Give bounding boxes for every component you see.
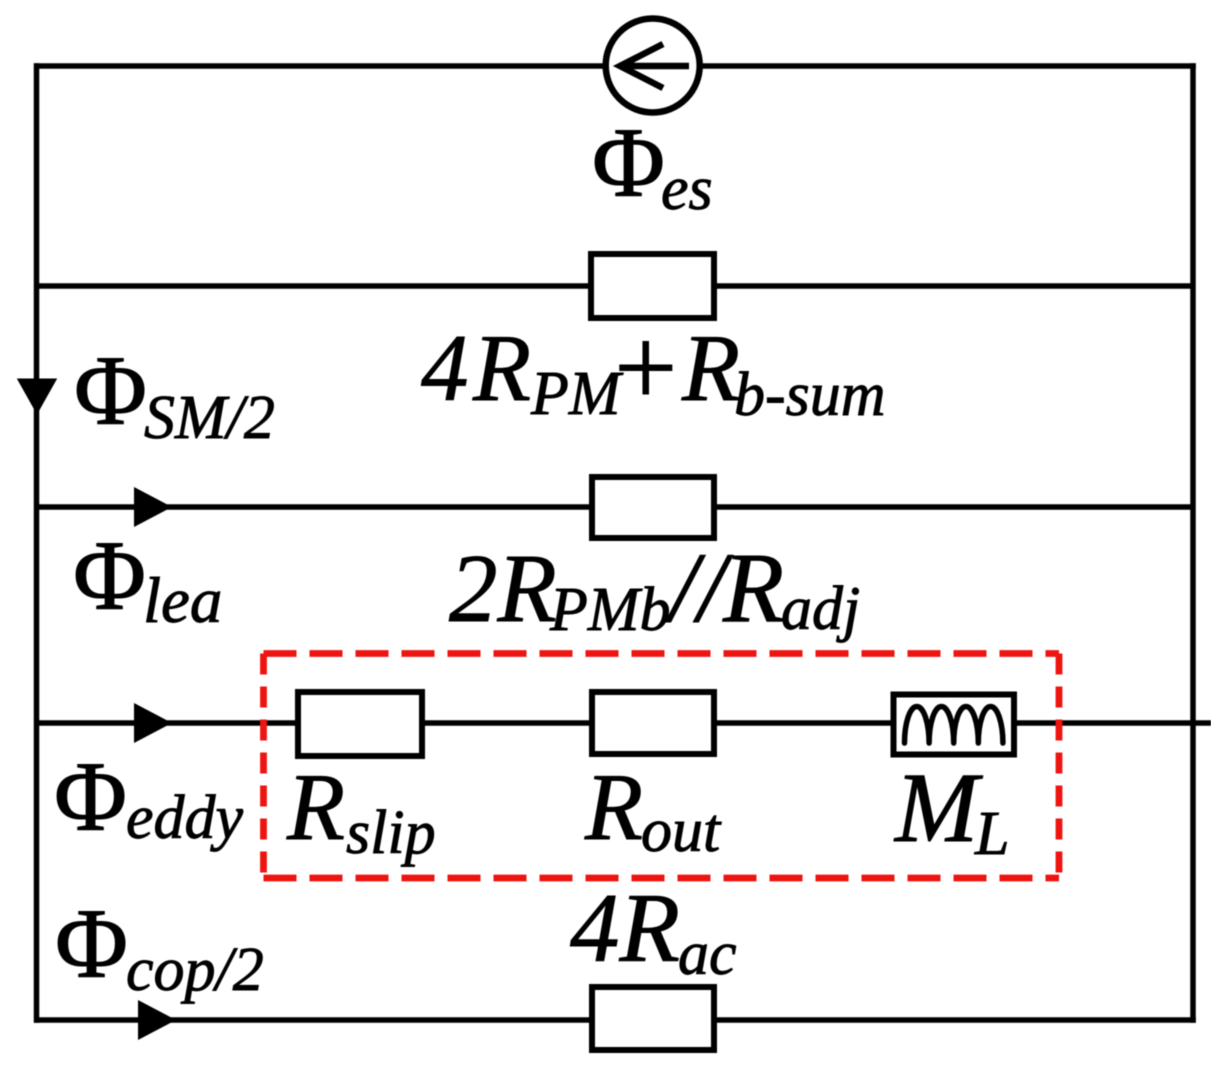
resistor 4RPM+Rb-sum	[591, 254, 714, 318]
label flux cop/2	[55, 888, 264, 1004]
flux source circle	[606, 19, 700, 113]
svg-text:L: L	[974, 800, 1009, 868]
wire right vertical	[1190, 63, 1196, 1023]
label Rslip	[286, 754, 436, 867]
svg-text:slip: slip	[346, 799, 436, 867]
svg-text:b-sum: b-sum	[734, 361, 886, 429]
svg-text:Φ: Φ	[592, 107, 665, 218]
svg-text:adj: adj	[781, 575, 860, 643]
svg-text:+: +	[607, 306, 683, 430]
svg-text:Φ: Φ	[74, 335, 147, 446]
svg-text:out: out	[641, 797, 722, 865]
label ML	[893, 752, 1009, 868]
svg-text:es: es	[661, 155, 713, 223]
wire top branch	[34, 63, 1196, 69]
label 4Rac	[570, 874, 737, 988]
resistor Rslip	[298, 692, 422, 756]
red dashed box	[264, 654, 1060, 879]
flux source arrow	[619, 44, 689, 88]
wire left vertical	[34, 63, 40, 1023]
svg-text:Φ: Φ	[73, 520, 146, 631]
arrow branch 3	[134, 487, 172, 527]
wire branch 2	[34, 283, 1193, 289]
svg-text:SM/2: SM/2	[144, 384, 275, 452]
svg-text:lea: lea	[143, 565, 222, 637]
svg-text:ac: ac	[678, 920, 737, 988]
label flux lea	[73, 520, 222, 637]
label Rout	[584, 754, 722, 865]
svg-text:2R: 2R	[449, 535, 557, 642]
resistor 2RPMb//Radj	[592, 477, 714, 538]
svg-text:R: R	[286, 754, 345, 860]
svg-text:4R: 4R	[570, 874, 680, 983]
svg-text:Φ: Φ	[54, 741, 127, 852]
wire bottom branch	[34, 1017, 1196, 1023]
resistor 4Rac	[592, 987, 714, 1050]
svg-text:PMb: PMb	[549, 576, 671, 644]
inductor ML	[894, 695, 1015, 755]
svg-text:cop/2: cop/2	[126, 936, 264, 1004]
wire branch 3	[34, 504, 1193, 510]
svg-text:R: R	[722, 532, 784, 643]
svg-text:R: R	[584, 754, 643, 860]
svg-text:M: M	[893, 752, 983, 863]
svg-text:eddy: eddy	[126, 784, 244, 852]
label 4RPM+Rb-sum	[421, 306, 886, 430]
wire branch 4	[34, 720, 1211, 726]
label 2RPMb//Radj	[449, 532, 860, 644]
arrow branch 5	[138, 1000, 176, 1040]
svg-text:R: R	[472, 315, 531, 421]
label flux SM/2	[74, 335, 275, 452]
resistor Rout	[592, 692, 714, 754]
svg-text:Φ: Φ	[55, 888, 128, 999]
label flux eddy	[54, 741, 244, 852]
arrow flux SM/2	[17, 379, 57, 415]
svg-text:R: R	[681, 315, 740, 421]
svg-text:4: 4	[421, 315, 469, 421]
arrow branch 4	[134, 703, 172, 743]
